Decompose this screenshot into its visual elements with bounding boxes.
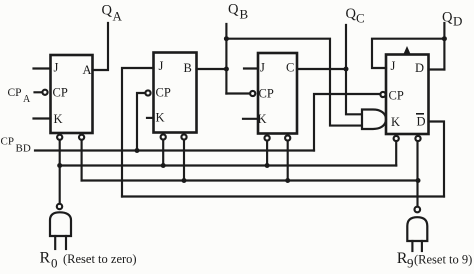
svg-text:D: D: [417, 115, 426, 129]
svg-text:K: K: [156, 111, 165, 125]
wire B output to QB riser: [197, 68, 227, 70]
svg-text:Q: Q: [102, 3, 113, 19]
wire J_B input from Dbar line: [122, 68, 154, 197]
svg-text:K: K: [54, 112, 63, 126]
wire FF B clear to R9 line: [183, 140, 185, 181]
flip-flop A box U1: [51, 55, 93, 133]
bubble CP_B inverting input: [145, 90, 150, 95]
bubble CP_D inverting input: [380, 92, 385, 97]
junction R0 line at FF A: [57, 163, 62, 168]
bubble CP_A inverting input: [42, 90, 47, 95]
wire FF A clear to R0 gate output: [59, 140, 61, 204]
wire QB riser: [225, 24, 227, 94]
wire K_A input stub: [34, 117, 51, 119]
svg-text:Q: Q: [228, 2, 239, 18]
svg-text:CP: CP: [389, 89, 404, 103]
wire QD feedback to J_D: [372, 39, 444, 68]
wire R0 line L2: [60, 164, 397, 166]
svg-text:D: D: [415, 61, 424, 75]
wire CP_A input: [35, 91, 46, 93]
bubble CP_C inverting input: [250, 91, 255, 96]
svg-text:B: B: [184, 61, 192, 75]
wire R9 gate input stub 1: [411, 241, 413, 251]
bubble FF A set input (R9): [79, 135, 84, 140]
wire QB to CP_C: [226, 92, 250, 94]
wire R9 line L3: [82, 179, 418, 181]
svg-text:CP: CP: [8, 87, 22, 99]
wire QD riser: [443, 23, 445, 70]
flip-flop C box U3: [258, 53, 297, 134]
svg-text:K: K: [258, 112, 267, 126]
junction QB output node: [224, 67, 229, 72]
bubble R9 gate output: [415, 207, 421, 213]
wire QB to AND gate lower input: [226, 39, 362, 126]
junction CP_BD to CP_B: [135, 148, 140, 153]
wire R9 gate input stub 2: [421, 241, 423, 251]
junction R0 line at FF B: [161, 163, 166, 168]
AND gate U5 (QB.QC to K_D): [362, 110, 386, 130]
junction QC output node: [344, 67, 349, 72]
svg-text:Q: Q: [442, 10, 453, 26]
bubble FF A clear input (R0): [57, 135, 62, 140]
svg-text:CP: CP: [53, 86, 68, 100]
wire FF C clear to R9 line: [287, 141, 289, 181]
junction QB to AND node: [224, 36, 229, 41]
junction R0 line at FF C: [265, 163, 270, 168]
NAND gate R0 (reset to zero): [50, 212, 71, 236]
svg-text:CP: CP: [259, 87, 274, 101]
junction QD output node: [442, 36, 447, 41]
svg-text:K: K: [391, 115, 400, 129]
bubble FF B clear input (R0): [161, 134, 166, 139]
junction R9 line at FF C: [285, 178, 290, 183]
flip-flop D box U4: [386, 55, 429, 135]
svg-text:J: J: [159, 59, 164, 73]
overbar of Dbar label: [416, 113, 424, 115]
svg-text:9: 9: [407, 256, 414, 271]
wire Dbar output to JB line: [429, 122, 445, 197]
svg-text:CP: CP: [156, 86, 171, 100]
svg-text:C: C: [356, 11, 365, 26]
wire CP_BD line L1: [35, 149, 314, 151]
bubble FF D clear input (R0): [394, 136, 399, 141]
wire FF C clear to R0 line: [266, 141, 268, 166]
bubble FF C clear input (R9): [285, 135, 290, 140]
wire R0 gate input stub 1: [54, 236, 56, 249]
svg-text:D: D: [453, 14, 462, 29]
svg-text:J: J: [391, 59, 396, 73]
svg-text:A: A: [23, 94, 31, 105]
wire Dbar to J_B line L4: [122, 195, 444, 197]
wire FF A set down to R9 line: [81, 140, 83, 181]
svg-text:CP: CP: [1, 136, 14, 148]
bubble FF B clear input (R9): [181, 134, 186, 139]
wire CP_B input riser from CP_BD line: [137, 93, 148, 151]
svg-text:B: B: [240, 7, 249, 22]
arrow on top edge of FF D: [403, 46, 410, 55]
wire CP_D input from CP_BD riser: [314, 94, 380, 151]
bubble FF C clear input (R0): [265, 135, 270, 140]
flip-flop B box U2: [154, 53, 197, 133]
wire K_C input stub: [243, 118, 258, 120]
wire R0 gate input stub 2: [65, 236, 67, 249]
svg-text:J: J: [260, 61, 265, 75]
svg-text:(Reset to 9): (Reset to 9): [414, 253, 472, 267]
wire D output to QD riser: [429, 68, 445, 70]
svg-text:J: J: [54, 61, 59, 75]
bubble FF D set input (R9): [415, 136, 420, 141]
junction R9 line at FF B: [182, 178, 187, 183]
svg-text:A: A: [113, 9, 123, 24]
bubble R0 gate output: [57, 204, 62, 209]
svg-text:BD: BD: [16, 143, 31, 155]
wire J_C input stub: [244, 67, 258, 69]
svg-text:Q: Q: [346, 6, 357, 22]
junction R9 line at FF D: [416, 178, 421, 183]
wire FF D clear to R0 line end: [395, 141, 397, 165]
wire QC riser and AND gate upper input: [346, 25, 362, 114]
wire FF D set to R9 gate output: [416, 141, 418, 207]
wire J_A input stub: [34, 67, 51, 69]
wire K_B input stub: [147, 117, 154, 119]
wire FF B clear to R0 line: [162, 140, 164, 166]
svg-text:C: C: [286, 61, 294, 75]
NAND gate R9 (reset to nine): [407, 217, 427, 241]
svg-text:A: A: [83, 63, 92, 77]
wire A output to QA riser: [93, 23, 109, 70]
wire C output to QC riser: [297, 68, 346, 70]
svg-text:(Reset to zero): (Reset to zero): [63, 252, 137, 266]
svg-text:R: R: [40, 250, 51, 267]
svg-text:0: 0: [51, 256, 58, 271]
